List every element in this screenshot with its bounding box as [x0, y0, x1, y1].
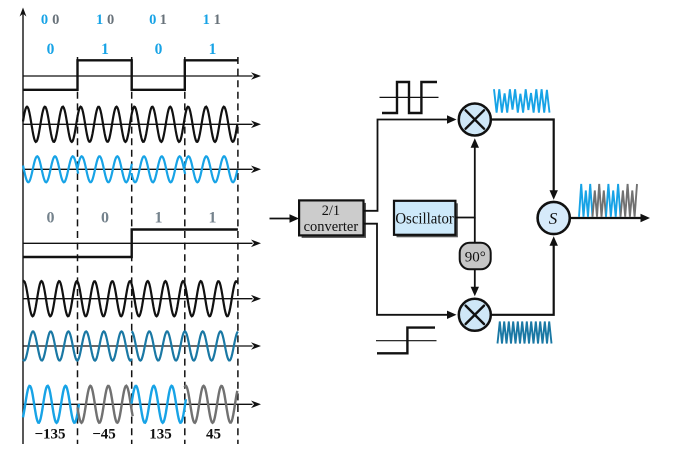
square wave 1 (odd bit stream) — [23, 60, 238, 90]
svg-text:S: S — [549, 209, 558, 228]
carrier sine wave (black, row 2) — [23, 107, 237, 142]
wire: converter lower output to bottom multiplier — [364, 224, 457, 319]
row2 carrier axis — [23, 121, 261, 129]
svg-text:0: 0 — [47, 210, 55, 227]
svg-text:1: 1 — [155, 210, 163, 227]
BPSK wave of odd bits (cyan, row 3) — [23, 156, 78, 182]
BPSK wave of even bits (teal, row 7) — [23, 331, 132, 360]
row8 QPSK-wave axis — [23, 401, 261, 409]
svg-text:1: 1 — [203, 12, 210, 28]
row7 teal-wave axis — [23, 342, 261, 350]
90-degree phase shifter block — [460, 243, 491, 269]
svg-text:−135: −135 — [34, 427, 65, 443]
cyan burst at top multiplier output — [494, 89, 550, 112]
square wave 2 (even bit stream) — [23, 230, 238, 258]
Oscillator block — [394, 201, 458, 238]
svg-text:0: 0 — [107, 12, 114, 28]
step icon on lower path — [376, 328, 437, 354]
square pulse icon on upper path — [380, 82, 439, 113]
left vertical axis — [20, 8, 27, 445]
teal burst at bottom multiplier output — [498, 322, 552, 344]
svg-text:1: 1 — [160, 12, 167, 28]
wire: bottom multiplier output to summer — [491, 236, 558, 315]
svg-text:−45: −45 — [92, 427, 116, 443]
wire: converter upper output to top multiplier — [364, 115, 457, 211]
wire: summer output — [570, 214, 650, 222]
row5 square-wave axis — [23, 240, 261, 248]
svg-text:1: 1 — [101, 41, 109, 58]
svg-text:0: 0 — [41, 12, 48, 28]
wire: input into 2/1 converter — [270, 214, 300, 222]
wire: 90-degree shifter down into bottom multiplier — [471, 269, 479, 296]
svg-text:1: 1 — [96, 12, 103, 28]
multiplier M2 (bottom mixer) — [459, 299, 491, 331]
svg-text:90°: 90° — [465, 249, 486, 265]
svg-text:0: 0 — [155, 41, 163, 58]
row1 square-wave axis — [23, 72, 261, 80]
svg-text:0: 0 — [149, 12, 156, 28]
dashed symbol boundary 2 — [131, 57, 133, 444]
wire: junction down into 90-degree shifter — [474, 218, 476, 245]
dashed symbol boundary 1 — [77, 57, 79, 444]
svg-text:Oscillator: Oscillator — [395, 211, 454, 228]
QPSK output burst (cyan/gray) — [579, 184, 593, 217]
svg-text:1: 1 — [209, 210, 217, 227]
svg-text:45: 45 — [206, 427, 221, 443]
row6 carrier axis — [23, 295, 261, 303]
multiplier M1 (top mixer) — [459, 104, 491, 136]
summer S — [538, 202, 570, 234]
svg-text:135: 135 — [149, 427, 172, 443]
svg-text:0: 0 — [101, 210, 109, 227]
QPSK composite wave (row 8, cyan/gray segments) — [23, 386, 79, 423]
2/1 converter block U1 — [299, 200, 366, 238]
dashed symbol boundary 4 — [237, 57, 239, 444]
dashed symbol boundary 3 — [184, 57, 186, 444]
svg-text:1: 1 — [214, 12, 221, 28]
svg-text:converter: converter — [304, 219, 359, 235]
svg-text:2/1: 2/1 — [322, 203, 340, 219]
wire: oscillator to junction and up to top multiplier — [455, 138, 479, 217]
row3 cyan-wave axis — [23, 166, 261, 174]
svg-text:0: 0 — [52, 12, 59, 28]
carrier sine wave (black, row 6) — [23, 281, 237, 316]
svg-text:0: 0 — [47, 41, 55, 58]
svg-text:1: 1 — [209, 41, 217, 58]
wire: top multiplier output to summer — [491, 120, 558, 200]
